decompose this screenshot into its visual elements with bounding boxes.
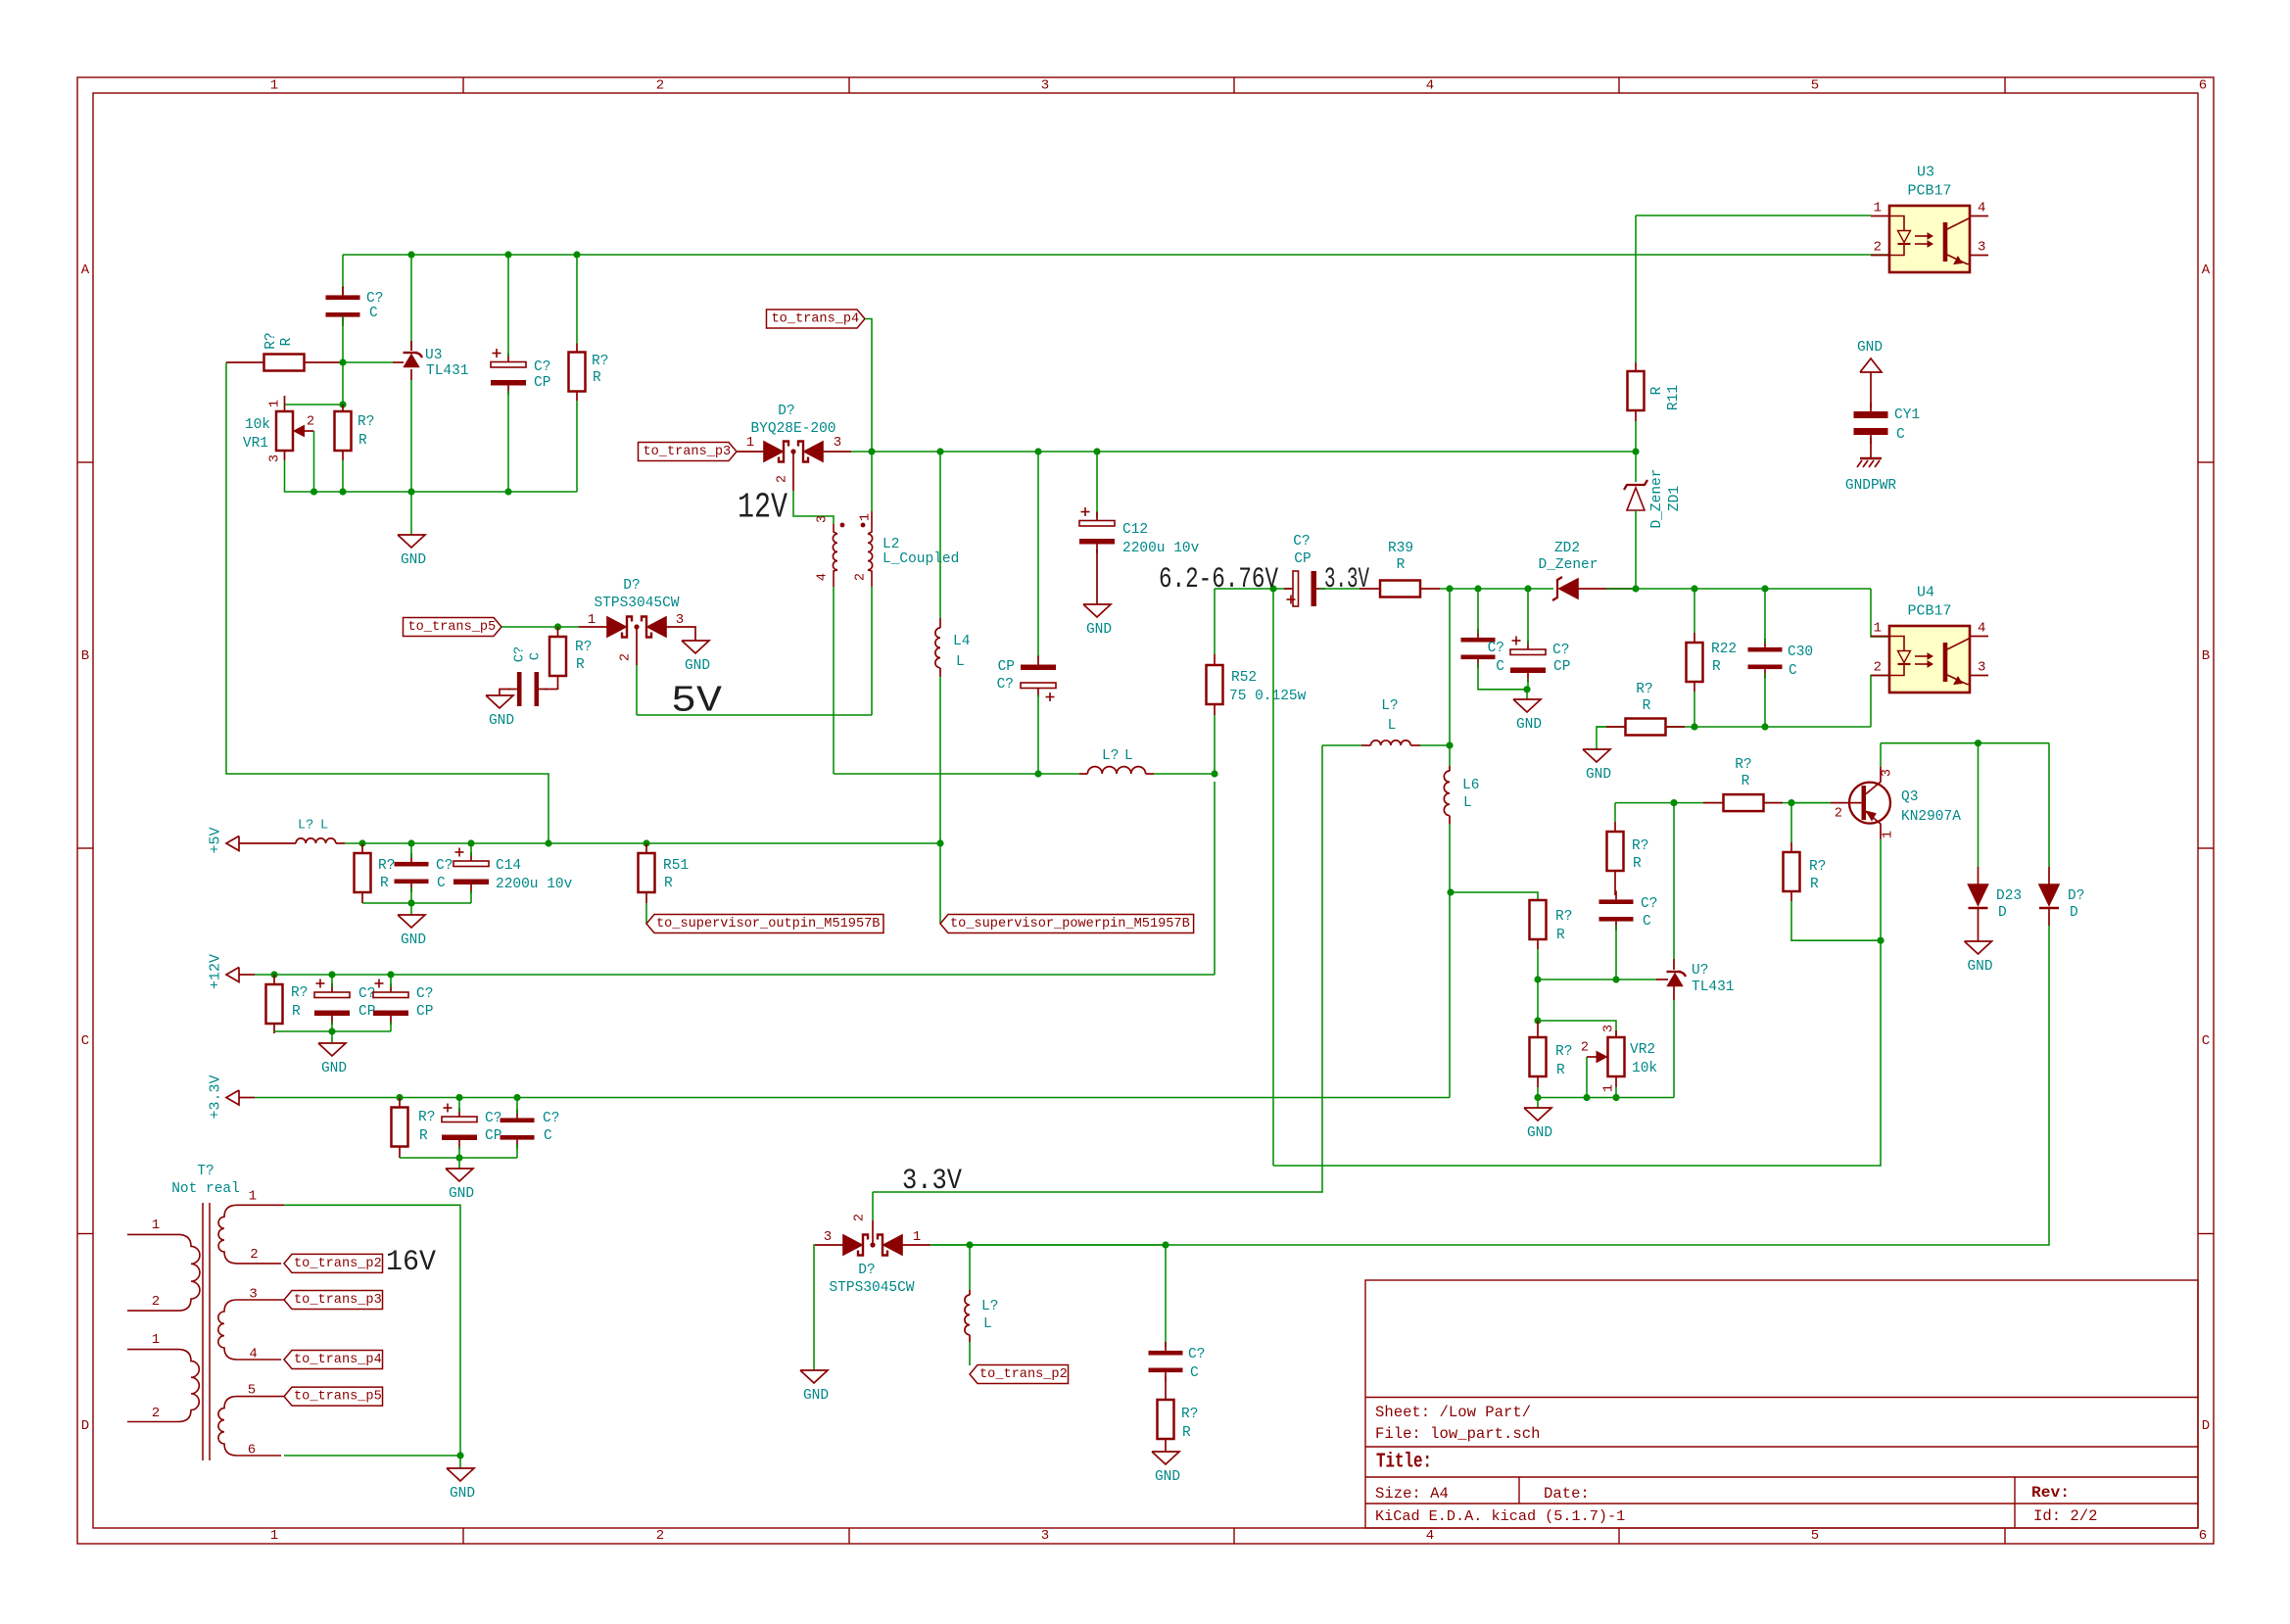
svg-text:R: R bbox=[593, 370, 601, 386]
svg-text:2: 2 bbox=[1581, 1041, 1589, 1056]
svg-text:CP: CP bbox=[1294, 551, 1311, 567]
wire 790 rail right bbox=[1154, 773, 1215, 775]
diode D? BYQ28E-200 dual bbox=[764, 442, 783, 461]
svg-text:CP: CP bbox=[485, 1128, 501, 1144]
wire emitter down bbox=[1880, 839, 1882, 941]
svg-text:1: 1 bbox=[152, 1332, 160, 1348]
resistor R? below junction bbox=[335, 411, 352, 451]
svg-text:2200u 10v: 2200u 10v bbox=[1122, 541, 1200, 556]
resistor R? bottom bbox=[1165, 1376, 1167, 1400]
wire gnd row bbox=[1538, 1097, 1674, 1099]
svg-text:PCB17: PCB17 bbox=[1907, 183, 1951, 200]
svg-text:C?: C? bbox=[1488, 641, 1504, 656]
svg-text:R: R bbox=[1397, 557, 1406, 573]
wire VR1 wiper down bbox=[313, 431, 315, 492]
wire to_trans_p4 down bbox=[865, 319, 872, 453]
diode D23 D bbox=[1978, 743, 1980, 867]
wire R52 top segment bbox=[1215, 588, 1273, 590]
svg-text:C12: C12 bbox=[1122, 522, 1148, 538]
svg-text:+12V: +12V bbox=[208, 954, 224, 989]
capacitor C? CP filter x1560 bbox=[1510, 649, 1546, 655]
svg-text:R: R bbox=[1556, 1063, 1565, 1078]
ground GND +5V filter bbox=[410, 903, 412, 915]
wire collector up bbox=[1880, 743, 1882, 767]
ground GND left of R bbox=[1583, 749, 1610, 762]
transformer primary winding 1 bbox=[127, 1233, 178, 1235]
node junction 1920,960 bbox=[1877, 937, 1884, 944]
resistor R? +5V filter bbox=[355, 853, 371, 892]
svg-text:CP: CP bbox=[998, 659, 1015, 675]
inductor L4 L bbox=[939, 618, 941, 628]
svg-text:GND: GND bbox=[1586, 767, 1611, 783]
node junction top bus x420 bbox=[407, 251, 414, 258]
inductor L? horizontal at 761 bbox=[1322, 744, 1361, 746]
transistor Q3 KN2907A PNP bbox=[1849, 783, 1890, 824]
ground GND +12V filter bbox=[331, 1031, 333, 1043]
resistor R52 75 0.125w bbox=[1207, 665, 1223, 704]
optocoupler U3 PCB17 bbox=[1889, 206, 1970, 272]
svg-text:Id: 2/2: Id: 2/2 bbox=[2033, 1507, 2098, 1525]
node junction 350,502 bbox=[339, 488, 346, 495]
svg-text:1: 1 bbox=[1882, 831, 1896, 838]
wire ref row bbox=[1538, 979, 1656, 980]
hierarchical label to_trans_p5 bbox=[284, 1387, 383, 1406]
svg-text:C?: C? bbox=[416, 986, 433, 1002]
svg-text:B: B bbox=[2202, 648, 2210, 664]
svg-text:1: 1 bbox=[913, 1229, 921, 1245]
svg-text:2: 2 bbox=[853, 1214, 868, 1221]
capacitor C? C filter x1509 bbox=[1461, 638, 1496, 643]
node junction 1190,1271 bbox=[1162, 1241, 1169, 1248]
svg-text:2: 2 bbox=[656, 1528, 664, 1544]
svg-text:10k: 10k bbox=[245, 417, 270, 433]
hierarchical label to_trans_p4 bbox=[284, 1351, 383, 1369]
svg-text:1: 1 bbox=[1874, 621, 1882, 637]
svg-text:C?: C? bbox=[997, 677, 1014, 693]
svg-text:3: 3 bbox=[1041, 78, 1049, 94]
svg-text:2: 2 bbox=[854, 573, 869, 581]
capacitor C? C bottom bbox=[1149, 1351, 1183, 1356]
svg-text:75 0.125w: 75 0.125w bbox=[1229, 689, 1307, 704]
svg-text:3: 3 bbox=[1602, 1025, 1617, 1032]
wire ZD2 node down to L? node bbox=[1449, 589, 1451, 745]
svg-text:5: 5 bbox=[1811, 78, 1819, 94]
svg-text:R: R bbox=[279, 337, 295, 346]
svg-text:B: B bbox=[81, 648, 89, 664]
zener diode ZD2 D_Zener bbox=[1552, 577, 1562, 600]
svg-text:A: A bbox=[2202, 263, 2211, 278]
svg-text:R: R bbox=[664, 876, 673, 891]
svg-text:Q3: Q3 bbox=[1901, 789, 1918, 805]
wire emitter to 1190 rail bbox=[1273, 940, 1881, 1166]
svg-text:D?: D? bbox=[2068, 888, 2084, 904]
transformer secondary winding 5-6 bbox=[218, 1397, 284, 1456]
node junction 1300,601 bbox=[1269, 585, 1276, 592]
node junction 320,502 bbox=[310, 488, 317, 495]
wire bottom gnd bus bbox=[314, 491, 578, 493]
svg-text:2: 2 bbox=[1835, 807, 1842, 822]
node junction 408,1120 bbox=[396, 1094, 403, 1101]
ground GND below TL431 bbox=[410, 492, 412, 535]
node junction 399,995 bbox=[387, 971, 394, 978]
node junction 1829,819 bbox=[1788, 799, 1794, 806]
svg-text:3.3V: 3.3V bbox=[1324, 563, 1369, 597]
node junction 1560,601 bbox=[1524, 585, 1531, 592]
node junction 350,370 bbox=[339, 358, 346, 365]
node junction 1570,1042 bbox=[1534, 1017, 1541, 1024]
svg-text:GND: GND bbox=[1516, 717, 1542, 733]
svg-text:R?: R? bbox=[358, 414, 374, 430]
svg-text:6: 6 bbox=[2199, 1528, 2207, 1544]
svg-text:R?: R? bbox=[378, 858, 395, 874]
ground GND divider bbox=[1537, 1098, 1539, 1109]
svg-text:2: 2 bbox=[250, 1247, 258, 1263]
svg-text:C: C bbox=[2202, 1033, 2210, 1049]
svg-text:1: 1 bbox=[270, 1528, 278, 1544]
node junction 1480,761 bbox=[1446, 741, 1453, 748]
svg-text:3: 3 bbox=[1978, 660, 1985, 676]
wire R left to gnd bbox=[1597, 727, 1606, 749]
svg-text:4: 4 bbox=[1426, 1528, 1434, 1544]
wire collector rail bbox=[1881, 742, 2049, 744]
node junction 280,995 bbox=[270, 971, 277, 978]
resistor R39 bbox=[1380, 581, 1420, 597]
svg-text:C?: C? bbox=[485, 1111, 501, 1126]
node junction 1570,1120 bbox=[1534, 1094, 1541, 1101]
node junction 519,502 bbox=[504, 488, 511, 495]
svg-text:C?: C? bbox=[543, 1111, 559, 1126]
node junction 1120,461 bbox=[1093, 448, 1100, 454]
wire +3.3V bus rise to L6 node bbox=[1449, 892, 1451, 1098]
capacitor C? CP +3.3V bbox=[442, 1117, 477, 1122]
svg-text:+5V: +5V bbox=[208, 827, 224, 853]
svg-text:CY1: CY1 bbox=[1894, 407, 1920, 423]
wire VR2 pin3 row bbox=[1538, 1021, 1616, 1037]
svg-text:C?: C? bbox=[436, 858, 453, 874]
capacitor C? CP series polarized bbox=[1293, 571, 1299, 606]
svg-text:CP: CP bbox=[1553, 659, 1570, 675]
wire +5V bus bbox=[345, 842, 940, 844]
capacitor C? C +3.3V bbox=[501, 1118, 535, 1122]
ground GND below D23 bbox=[1965, 941, 1992, 954]
wire 742 rail to U4 pin2 bbox=[1597, 726, 1871, 728]
svg-text:16V: 16V bbox=[386, 1246, 436, 1279]
svg-text:CP: CP bbox=[534, 375, 550, 391]
resistor R? +12V bbox=[266, 984, 283, 1024]
inductor L? vertical bottom bbox=[969, 1290, 971, 1295]
svg-text:L: L bbox=[320, 819, 328, 834]
svg-text:3: 3 bbox=[1978, 240, 1985, 256]
svg-text:L?: L? bbox=[298, 819, 313, 834]
svg-text:to_trans_p4: to_trans_p4 bbox=[294, 1353, 382, 1367]
node junction 960,861 bbox=[936, 839, 943, 846]
wire to series cap bbox=[1273, 588, 1291, 590]
wire R51 to label bbox=[645, 903, 647, 924]
svg-text:3: 3 bbox=[676, 612, 684, 628]
hierarchical label to_trans_p5 bbox=[403, 618, 501, 637]
svg-text:R?: R? bbox=[592, 354, 608, 369]
svg-text:GND: GND bbox=[321, 1061, 347, 1076]
svg-text:Size: A4: Size: A4 bbox=[1375, 1485, 1449, 1503]
svg-text:+3.3V: +3.3V bbox=[208, 1075, 224, 1119]
inductor L6 L vertical bbox=[1449, 745, 1451, 766]
node junction 1570,1000 bbox=[1534, 976, 1541, 982]
wire L2 pin1 up to node bbox=[871, 452, 873, 511]
svg-text:VR2: VR2 bbox=[1630, 1042, 1655, 1058]
wire +3.3V gnd bus bbox=[400, 1157, 517, 1159]
wire 5V rail bbox=[637, 714, 872, 716]
svg-text:L_Coupled: L_Coupled bbox=[883, 551, 959, 567]
svg-text:L: L bbox=[1463, 795, 1472, 811]
inductor L2 L_Coupled bbox=[834, 524, 837, 534]
inductor L? L on 790 rail bbox=[1079, 773, 1087, 775]
svg-text:D23: D23 bbox=[1996, 888, 2022, 904]
svg-text:3: 3 bbox=[268, 454, 283, 462]
wire +5V bottom gnd bus bbox=[362, 902, 471, 904]
svg-text:R?: R? bbox=[1555, 1044, 1572, 1060]
hierarchical label to_supervisor_outpin_M51957B bbox=[646, 915, 883, 933]
wire ZD2 to C30 corner bbox=[1606, 588, 1871, 590]
node junction 890,461 bbox=[868, 448, 875, 454]
wire 790 rail left bbox=[834, 773, 1079, 775]
node junction 569,640 bbox=[554, 623, 561, 630]
wire base green segment bbox=[1791, 802, 1831, 804]
svg-text:BYQ28E-200: BYQ28E-200 bbox=[750, 421, 835, 437]
svg-text:Sheet: /Low Part/: Sheet: /Low Part/ bbox=[1375, 1404, 1531, 1421]
resistor R? horizontal at 742 bbox=[1626, 719, 1666, 736]
svg-text:C: C bbox=[1896, 427, 1905, 443]
svg-text:R: R bbox=[1633, 856, 1642, 872]
svg-text:R: R bbox=[419, 1128, 428, 1144]
svg-text:6: 6 bbox=[248, 1443, 256, 1458]
wire snubber cap left to gnd bbox=[500, 690, 510, 696]
node junction 420,861 bbox=[407, 839, 414, 846]
svg-text:C: C bbox=[1789, 663, 1797, 679]
wire L2 pin2 down to 5V wire bbox=[871, 587, 873, 715]
ground GND at STPS pin3 bbox=[682, 641, 709, 653]
svg-text:2: 2 bbox=[656, 78, 664, 94]
svg-text:to_trans_p5: to_trans_p5 bbox=[407, 620, 496, 635]
power symbol +3.3V arrow bbox=[226, 1090, 239, 1105]
svg-text:KiCad E.D.A. kicad (5.1.7)-1: KiCad E.D.A. kicad (5.1.7)-1 bbox=[1375, 1507, 1625, 1525]
svg-text:1: 1 bbox=[249, 1188, 257, 1204]
node junction 560,861 bbox=[545, 839, 551, 846]
capacitor C? C top-left bbox=[326, 295, 360, 300]
node junction 420,502 bbox=[407, 488, 414, 495]
node junction 1802,601 bbox=[1761, 585, 1768, 592]
node junction 990,1271 bbox=[966, 1241, 973, 1248]
svg-text:1: 1 bbox=[268, 400, 283, 407]
node junction 1060,461 bbox=[1034, 448, 1041, 454]
svg-text:L?: L? bbox=[1102, 748, 1119, 764]
svg-text:C?: C? bbox=[513, 646, 528, 662]
svg-text:D: D bbox=[1998, 905, 2007, 921]
svg-text:R: R bbox=[1643, 698, 1651, 714]
svg-text:2: 2 bbox=[1874, 240, 1882, 256]
resistor R22 bbox=[1687, 643, 1703, 682]
svg-text:D?: D? bbox=[858, 1263, 875, 1278]
svg-text:2: 2 bbox=[776, 475, 790, 483]
resistor R? x1829 lower bbox=[1784, 852, 1800, 891]
wire C1509 bottom to gnd bus bbox=[1478, 663, 1527, 690]
svg-text:PCB17: PCB17 bbox=[1907, 603, 1951, 620]
svg-text:C30: C30 bbox=[1788, 645, 1813, 660]
svg-text:to_trans_p2: to_trans_p2 bbox=[979, 1367, 1068, 1382]
wire STPS pin2 down bbox=[636, 627, 638, 665]
svg-text:R?: R? bbox=[418, 1110, 435, 1125]
svg-text:R: R bbox=[576, 657, 585, 673]
svg-text:12V: 12V bbox=[738, 488, 787, 528]
svg-text:U4: U4 bbox=[1917, 585, 1934, 601]
svg-text:R?: R? bbox=[1735, 757, 1751, 773]
svg-text:File: low_part.sch: File: low_part.sch bbox=[1375, 1425, 1540, 1443]
wire U3 pin1 feed bbox=[1636, 215, 1871, 216]
svg-text:C: C bbox=[1496, 659, 1504, 675]
svg-text:C: C bbox=[529, 652, 544, 660]
svg-text:GND: GND bbox=[1086, 622, 1112, 638]
wire STPS2 pin3 to gnd bbox=[814, 1245, 815, 1370]
svg-text:6: 6 bbox=[2199, 78, 2207, 94]
svg-text:5: 5 bbox=[1811, 1528, 1819, 1544]
svg-text:R?: R? bbox=[575, 640, 592, 655]
wire VR1 pin1 to junction bbox=[285, 404, 344, 406]
wire +12V bus bbox=[239, 974, 255, 976]
wire R1829 bottom corner to emitter bbox=[1791, 901, 1881, 940]
svg-text:GND: GND bbox=[401, 932, 426, 948]
svg-text:D: D bbox=[2070, 905, 2078, 921]
node junction 1481,911 bbox=[1447, 888, 1454, 895]
svg-text:4: 4 bbox=[1978, 201, 1985, 216]
svg-text:C: C bbox=[1190, 1365, 1199, 1381]
ground GND below C12 bbox=[1096, 549, 1098, 604]
node junction top bus x589 bbox=[573, 251, 580, 258]
capacitor C? C snubber horizontal bbox=[517, 672, 522, 706]
svg-text:ZD2: ZD2 bbox=[1554, 541, 1580, 556]
wire CP cap down to 790 rail bbox=[1037, 694, 1039, 774]
svg-text:U3: U3 bbox=[1917, 165, 1934, 181]
svg-text:GND: GND bbox=[1527, 1125, 1552, 1141]
resistor R? +3.3V bbox=[392, 1108, 408, 1147]
node junction 481,861 bbox=[467, 839, 474, 846]
svg-text:GND: GND bbox=[1967, 959, 1992, 975]
svg-text:R?: R? bbox=[1632, 838, 1648, 854]
svg-text:C?: C? bbox=[1641, 896, 1657, 912]
svg-text:Date:: Date: bbox=[1544, 1485, 1590, 1503]
svg-text:Title:: Title: bbox=[1376, 1452, 1432, 1474]
svg-text:to_trans_p3: to_trans_p3 bbox=[294, 1293, 382, 1308]
svg-text:to_trans_p2: to_trans_p2 bbox=[294, 1257, 382, 1271]
wire +12V gnd bus bbox=[274, 1030, 391, 1032]
svg-text:6.2-6.76V: 6.2-6.76V bbox=[1159, 563, 1278, 597]
node junction 1509,601 bbox=[1474, 585, 1481, 592]
svg-text:R?: R? bbox=[1809, 859, 1826, 875]
node junction 350,413 bbox=[339, 401, 346, 407]
svg-text:R22: R22 bbox=[1711, 642, 1737, 657]
svg-text:R: R bbox=[1182, 1425, 1191, 1441]
wire R bottom to bus bbox=[342, 460, 344, 492]
wire base rail y=819.6 bbox=[1615, 802, 1831, 804]
capacitor C? C +5V filter bbox=[395, 862, 429, 867]
svg-text:2: 2 bbox=[1874, 660, 1882, 676]
svg-text:R39: R39 bbox=[1388, 541, 1413, 556]
hierarchical label to_trans_p2 bbox=[284, 1254, 383, 1272]
svg-text:C: C bbox=[544, 1128, 552, 1144]
wire VR2 wiper down bbox=[1586, 1057, 1588, 1098]
hierarchical label to_trans_p4 bbox=[766, 310, 865, 328]
wire L2 pin4 down to 790 rail bbox=[833, 587, 835, 774]
resistor R51 bbox=[639, 853, 655, 892]
svg-text:2: 2 bbox=[619, 653, 634, 661]
wire L? corner down to 1217 rail bbox=[873, 745, 1322, 1192]
svg-text:T?: T? bbox=[197, 1164, 214, 1179]
wire R589 bottom to bus corner bbox=[576, 401, 578, 492]
svg-text:4: 4 bbox=[1978, 621, 1985, 637]
wire cap to R junction bbox=[342, 316, 344, 362]
svg-text:D?: D? bbox=[623, 578, 640, 594]
svg-text:R11: R11 bbox=[1666, 385, 1682, 410]
transformer secondary winding 1-2 bbox=[218, 1205, 284, 1264]
wire BYQ pin2 to L2 pin3 bbox=[793, 491, 834, 524]
resistor R? base drive horizontal bbox=[1724, 794, 1764, 811]
svg-text:C?: C? bbox=[1188, 1347, 1205, 1362]
node junction 1730,742 bbox=[1691, 723, 1697, 730]
svg-text:L?: L? bbox=[981, 1299, 998, 1314]
svg-text:10k: 10k bbox=[1632, 1061, 1657, 1076]
wire label to STPS bbox=[501, 626, 579, 628]
svg-text:4: 4 bbox=[1426, 78, 1434, 94]
svg-text:C: C bbox=[1643, 914, 1651, 930]
node junction 1670,601 bbox=[1632, 585, 1639, 592]
wire VR1 pin3 down and right bbox=[285, 460, 314, 492]
wire top bus corner down bbox=[342, 255, 344, 296]
wire 1271 rail mid bbox=[970, 1244, 1166, 1246]
node junction 1559,703 bbox=[1523, 686, 1530, 693]
wire R39 to ZD2 bbox=[1440, 588, 1553, 590]
svg-text:U?: U? bbox=[1692, 963, 1708, 979]
svg-text:L: L bbox=[956, 654, 965, 670]
svg-text:to_supervisor_outpin_M51957B: to_supervisor_outpin_M51957B bbox=[656, 917, 880, 931]
svg-text:R: R bbox=[292, 1004, 301, 1020]
svg-text:2200u 10v: 2200u 10v bbox=[496, 877, 573, 892]
node junction 660,861 bbox=[643, 839, 649, 846]
node junction 339,995 bbox=[328, 971, 335, 978]
svg-text:GNDPWR: GNDPWR bbox=[1845, 478, 1897, 494]
svg-text:1: 1 bbox=[1602, 1084, 1617, 1092]
op-amp U? TL431 shunt regulator bbox=[1667, 971, 1682, 973]
transformer secondary winding 3-4 bbox=[218, 1300, 284, 1360]
wire secondary pin1 loop to gnd bbox=[284, 1205, 460, 1456]
diode D? STPS3045CW dual bbox=[607, 617, 626, 637]
potentiometer VR2 10k bbox=[1608, 1037, 1625, 1076]
svg-text:1: 1 bbox=[1874, 201, 1882, 216]
wire STPS2 pin1 right bbox=[930, 1244, 970, 1246]
wire R mid to second row bbox=[1537, 979, 1539, 1021]
svg-text:GND: GND bbox=[449, 1186, 474, 1202]
node junction 1670,461 bbox=[1632, 448, 1639, 454]
svg-text:TL431: TL431 bbox=[426, 363, 469, 379]
node junction 469,1120 bbox=[455, 1094, 462, 1101]
svg-text:3: 3 bbox=[824, 1229, 832, 1245]
svg-text:R: R bbox=[1810, 877, 1819, 892]
transformer primary winding 2 bbox=[127, 1349, 178, 1351]
svg-text:L2: L2 bbox=[883, 537, 899, 552]
svg-text:3: 3 bbox=[816, 515, 831, 523]
wire node down to L4 bbox=[939, 452, 941, 618]
svg-text:3: 3 bbox=[834, 435, 841, 451]
svg-text:L: L bbox=[983, 1316, 992, 1332]
svg-text:R?: R? bbox=[1636, 682, 1652, 697]
svg-text:2: 2 bbox=[152, 1294, 160, 1310]
